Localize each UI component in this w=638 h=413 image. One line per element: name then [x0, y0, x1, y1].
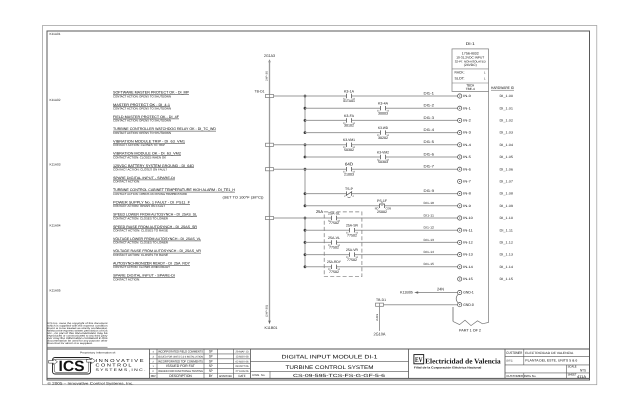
- svg-text:ISSUED FOR UNITS 5 & 6 INSTALL: ISSUED FOR UNITS 5 & 6 INSTALLATION: [158, 355, 203, 358]
- svg-text:TB-D1: TB-D1: [255, 89, 265, 93]
- svg-text:02 NOV 06: 02 NOV 06: [236, 360, 250, 363]
- svg-text:21003: 21003: [344, 172, 354, 176]
- svg-text:1: 1: [484, 78, 486, 81]
- junction dot row 14: [304, 253, 307, 256]
- module input terminal IN-3: [458, 131, 462, 135]
- svg-text:Electricidad de Valencia: Electricidad de Valencia: [425, 357, 501, 366]
- svg-text:(24VDC): (24VDC): [464, 63, 477, 67]
- description row 12: [113, 225, 197, 233]
- svg-text:EV: EV: [415, 356, 423, 364]
- svg-text:27 AUG 06: 27 AUG 06: [236, 370, 250, 373]
- svg-text:K11B05: K11B05: [400, 291, 413, 295]
- svg-text:50303: 50303: [378, 160, 388, 164]
- svg-text:SP: SP: [209, 350, 214, 354]
- svg-text:DI1-11: DI1-11: [424, 213, 435, 217]
- wire 24P-35 bus vertical: [269, 61, 271, 321]
- svg-text:DI_1.12: DI_1.12: [500, 241, 514, 245]
- svg-text:INCORPORATED FIELD COMMENTS: INCORPORATED FIELD COMMENTS: [158, 350, 203, 354]
- module input terminal IN-6: [458, 167, 462, 171]
- revision history table: [149, 349, 250, 378]
- description row 14: [113, 249, 201, 257]
- wire row 15 left segment (net DI1-15): [305, 266, 331, 268]
- wire row 7 left segment (net DI1-7): [274, 168, 347, 170]
- branch wire vertical x=305 rows 11-15: [304, 218, 306, 267]
- svg-text:SLOT:: SLOT:: [455, 77, 465, 81]
- module bottom left edge: [452, 307, 454, 321]
- svg-text:IN-14: IN-14: [463, 265, 473, 269]
- wire row 14 left segment (net DI1-14): [305, 254, 349, 256]
- svg-text:DI1-12: DI1-12: [424, 226, 435, 230]
- svg-text:77502: 77502: [347, 258, 357, 262]
- jumper arc between GND-1 and GND-0: [456, 294, 458, 303]
- contact 25A-SL: [328, 211, 341, 225]
- junction dot row 9: [304, 192, 307, 195]
- description row 3: [113, 115, 179, 123]
- svg-text:CONTACT ACTION: OPENS ON RISIN: CONTACT ACTION: OPENS ON RISING TEMPERAT…: [113, 192, 187, 196]
- svg-text:CONTACT ACTION: OPENS TO SHUTD: CONTACT ACTION: OPENS TO SHUTDOWN: [113, 131, 171, 135]
- description row 4: [113, 127, 216, 135]
- svg-text:CONTACT ACTION: OPENS TO SHUTD: CONTACT ACTION: OPENS TO SHUTDOWN: [113, 94, 171, 98]
- wire row 3 right segment (net DI1-3): [352, 119, 458, 121]
- svg-text:APPROVED: APPROVED: [219, 374, 232, 378]
- ICS company name: [96, 358, 146, 372]
- svg-text:IN-13: IN-13: [463, 253, 473, 257]
- junction dot row 4: [304, 131, 307, 134]
- description row 5: [113, 139, 185, 147]
- description row 1: [113, 91, 190, 99]
- title block frame: [47, 349, 590, 378]
- svg-text:77502: 77502: [329, 270, 339, 274]
- svg-text:CUSTOMER: CUSTOMER: [506, 351, 522, 355]
- junction dot row 5: [304, 143, 307, 146]
- svg-text:IN-10: IN-10: [463, 216, 473, 220]
- svg-text:DI_1.14: DI_1.14: [500, 265, 514, 269]
- svg-text:K11A03: K11A03: [50, 163, 61, 167]
- module input terminal IN-8: [458, 192, 462, 196]
- svg-text:ISSUED FOR FUNCTIONAL TESTING: ISSUED FOR FUNCTIONAL TESTING: [158, 370, 203, 373]
- module ground terminal GND-1: [458, 290, 462, 294]
- contact TS-P: [344, 187, 354, 198]
- svg-text:DI_1.11: DI_1.11: [500, 228, 514, 232]
- svg-text:0: 0: [153, 370, 155, 373]
- wire 24N to GND-1: [418, 292, 458, 294]
- svg-text:41TA01: 41TA01: [343, 99, 355, 103]
- contact 25A-VR: [346, 248, 359, 262]
- svg-text:PART 1 OF 2: PART 1 OF 2: [459, 329, 481, 333]
- contact 64D: [343, 162, 356, 177]
- wire row 7 right segment (net DI1-7): [352, 168, 458, 170]
- svg-text:29 MAY 13: 29 MAY 13: [236, 351, 250, 354]
- bus down-arrow to K11B01: [268, 321, 271, 325]
- svg-text:DESCRIPTION: DESCRIPTION: [169, 374, 192, 378]
- device boundary 25A (autosynchronizer) dashed box: [324, 212, 362, 277]
- wire row 11 left segment (net DI1-11): [274, 217, 332, 219]
- svg-text:HARDWARE ID: HARDWARE ID: [491, 86, 514, 90]
- contact 25A-VL: [328, 236, 341, 250]
- svg-text:3: 3: [153, 355, 155, 358]
- svg-text:SP: SP: [209, 364, 214, 368]
- module DI-1 header box: [452, 49, 489, 92]
- proprietary notice paragraph: [48, 322, 109, 347]
- description row 6: [113, 152, 181, 160]
- svg-text:SHEET: SHEET: [568, 372, 577, 376]
- svg-text:ISSUED FOR FAT: ISSUED FOR FAT: [166, 364, 196, 368]
- svg-text:13 NOV 08: 13 NOV 08: [236, 355, 250, 358]
- svg-text:1: 1: [484, 72, 486, 75]
- svg-text:2G10A: 2G10A: [374, 331, 386, 336]
- svg-text:77502: 77502: [329, 221, 339, 225]
- svg-text:25A: 25A: [316, 209, 323, 214]
- svg-text:SP: SP: [209, 359, 214, 363]
- svg-text:24P-35: 24P-35: [266, 70, 269, 81]
- svg-text:24N: 24N: [376, 314, 379, 321]
- svg-text:GND-1: GND-1: [463, 291, 474, 295]
- module input terminal IN-15: [458, 277, 462, 281]
- svg-text:K3-1A: K3-1A: [344, 89, 355, 93]
- module header divider 1: [452, 68, 489, 70]
- junction dot row 11: [304, 217, 307, 220]
- svg-text:PLANTA DEL ESTE, UNITS 5 & 6: PLANTA DEL ESTE, UNITS 5 & 6: [525, 359, 577, 363]
- svg-text:25A-VL: 25A-VL: [328, 236, 340, 240]
- contact K3-VM1: [343, 138, 356, 152]
- wire row 14 right segment (net DI1-14): [355, 254, 458, 256]
- branch wire vertical x=305 rows 5-6: [304, 145, 306, 157]
- svg-text:DI1-4: DI1-4: [424, 128, 435, 132]
- terminal TB-D1 row 7: [266, 168, 274, 171]
- svg-text:30202: 30202: [378, 136, 388, 140]
- svg-text:4: 4: [153, 351, 155, 354]
- svg-text:2G1A3: 2G1A3: [264, 54, 275, 58]
- description row 15: [113, 261, 191, 269]
- branch wire vertical x=305 rows 1-4: [304, 96, 306, 133]
- svg-text:K3-VM1: K3-VM1: [343, 138, 355, 142]
- svg-text:25A-VR: 25A-VR: [346, 248, 359, 252]
- module input terminal IN-2: [458, 118, 462, 122]
- module input terminal IN-10: [458, 216, 462, 220]
- wire row 10 right segment (net DI1-10): [385, 205, 458, 207]
- svg-text:DI1-7: DI1-7: [424, 165, 435, 169]
- svg-text:IN-2: IN-2: [463, 119, 471, 123]
- svg-text:IN-4: IN-4: [463, 143, 471, 147]
- svg-text:RACK:: RACK:: [455, 71, 465, 75]
- wire row 1 right segment (net DI1-1): [352, 95, 458, 97]
- sheet inner border: [47, 31, 590, 380]
- svg-text:than that for which it is supp: than that for which it is supplied.: [48, 342, 93, 345]
- description row 16: [113, 274, 175, 282]
- description row 11: [113, 213, 197, 221]
- svg-text:© 2005 – Innovative Control: © 2005 – Innovative Control Systems, Inc…: [48, 381, 134, 385]
- svg-text:DI1-1: DI1-1: [424, 91, 435, 95]
- module input terminal IN-12: [458, 240, 462, 244]
- svg-text:(24P-35): (24P-35): [266, 305, 269, 317]
- svg-text:IN-6: IN-6: [463, 167, 471, 171]
- wire row 4 left segment (net DI1-4): [305, 132, 380, 134]
- EdV customer logo: [414, 355, 501, 370]
- svg-text:CONTACT ACTION: CLOSES TO TRIP: CONTACT ACTION: CLOSES TO TRIP: [113, 143, 165, 147]
- contact K3-1A: [343, 89, 356, 103]
- wire row 11 right segment (net DI1-11): [337, 217, 458, 219]
- svg-text:25002: 25002: [377, 210, 387, 214]
- terminal TB-D1 row 1: [266, 94, 274, 97]
- svg-text:K11A01: K11A01: [50, 32, 61, 36]
- svg-text:DI1-6: DI1-6: [424, 152, 435, 156]
- svg-text:K11A05: K11A05: [50, 289, 61, 293]
- customer info table: [505, 349, 590, 379]
- module jagged break line: [453, 320, 489, 325]
- svg-text:IN-9: IN-9: [463, 204, 471, 208]
- svg-text:DI_1.09: DI_1.09: [500, 204, 514, 208]
- module input terminal IN-11: [458, 228, 462, 232]
- svg-text:K11A04: K11A04: [50, 223, 61, 227]
- contact K3-4A: [377, 102, 390, 116]
- svg-text:DI1-9: DI1-9: [424, 189, 435, 193]
- svg-text:PS-1F: PS-1F: [377, 199, 387, 203]
- module input terminal IN-0: [458, 94, 462, 98]
- svg-text:TB-D1: TB-D1: [376, 298, 386, 302]
- svg-text:TS-P: TS-P: [345, 187, 354, 191]
- wire row 5 right segment (net DI1-5): [352, 144, 458, 146]
- svg-text:CONTACT ACTION: CLOSES WHEN OK: CONTACT ACTION: CLOSES WHEN OK: [113, 155, 166, 159]
- svg-text:DI_1.15: DI_1.15: [500, 277, 514, 281]
- wire row 13 right segment (net DI1-13): [337, 241, 458, 243]
- wire GND-0 to TB-D1: [384, 304, 458, 306]
- junction dot row 7: [304, 168, 307, 171]
- junction dot row 1: [304, 95, 307, 98]
- wire row 12 right segment (net DI1-12): [355, 229, 458, 231]
- svg-text:IN-5: IN-5: [463, 155, 471, 159]
- svg-text:K3-4A: K3-4A: [378, 102, 389, 106]
- svg-text:DI_1.04: DI_1.04: [500, 143, 514, 147]
- svg-text:64D: 64D: [345, 162, 353, 167]
- svg-text:INCORPORATED TDF COMMENTS: INCORPORATED TDF COMMENTS: [158, 359, 203, 363]
- contact K3-WD: [377, 126, 390, 140]
- wire row 6 left segment (net DI1-6): [305, 156, 380, 158]
- svg-text:25A-RDY: 25A-RDY: [327, 260, 342, 264]
- svg-text:CONTACT ACTION:: CONTACT ACTION:: [113, 180, 140, 184]
- svg-text:DI1-5: DI1-5: [424, 140, 435, 144]
- svg-text:CONTACT ACTION: OPENS TO SHUTD: CONTACT ACTION: OPENS TO SHUTDOWN: [113, 107, 171, 111]
- module input terminal IN-4: [458, 143, 462, 147]
- wire 24N vertical to 2G10A: [379, 306, 381, 331]
- module right edge: [488, 91, 490, 322]
- svg-text:DATE: DATE: [239, 374, 246, 378]
- svg-text:TURBINE CONTROL SYSTEM: TURBINE CONTROL SYSTEM: [286, 365, 374, 371]
- wire row 5 left segment (net DI1-5): [274, 144, 347, 146]
- svg-text:77502: 77502: [329, 246, 339, 250]
- module input terminal IN-9: [458, 204, 462, 208]
- svg-text:30003: 30003: [378, 111, 388, 115]
- svg-text:CS-09-595-TCS-FS-G-GF-5-6: CS-09-595-TCS-FS-G-GF-5-6: [293, 373, 386, 378]
- svg-text:DI1-13: DI1-13: [424, 238, 435, 242]
- description row 10: [113, 200, 190, 208]
- svg-text:IN-1: IN-1: [463, 106, 471, 110]
- wire row 9 left segment (net DI1-9): [305, 193, 346, 195]
- module header divider 2: [452, 82, 489, 84]
- svg-text:SITE:: SITE:: [506, 360, 513, 363]
- svg-text:K11A02: K11A02: [50, 98, 61, 102]
- svg-text:K3-FA: K3-FA: [344, 114, 355, 118]
- svg-text:C O N T R O L: C O N T R O L: [96, 362, 133, 367]
- svg-text:DI_1.00: DI_1.00: [500, 94, 514, 98]
- terminal TB-D1 row 11: [266, 216, 274, 219]
- svg-text:DI_1.10: DI_1.10: [500, 216, 514, 220]
- junction dot row 12: [304, 229, 307, 232]
- svg-text:DI_1.06: DI_1.06: [500, 167, 514, 171]
- wire row 10 left segment (net DI1-10): [305, 205, 379, 207]
- svg-text:IN-12: IN-12: [463, 241, 473, 245]
- svg-text:DI_1.01: DI_1.01: [500, 106, 514, 110]
- svg-text:IN-7: IN-7: [463, 180, 471, 184]
- svg-text:CONTACT ACTION: OPENS ON FAULT: CONTACT ACTION: OPENS ON FAULT: [113, 204, 165, 208]
- svg-text:K11B01: K11B01: [265, 326, 278, 330]
- svg-text:4: 4: [352, 195, 354, 198]
- svg-text:(SET TO 100°F (38°C)): (SET TO 100°F (38°C)): [223, 196, 264, 200]
- svg-text:50302: 50302: [344, 148, 354, 152]
- module input terminal IN-14: [458, 265, 462, 269]
- svg-text:CONTACT ACTION: OPENS TO SHUTD: CONTACT ACTION: OPENS TO SHUTDOWN: [113, 119, 171, 123]
- svg-text:IN-15: IN-15: [463, 277, 473, 281]
- svg-text:08 OCT 06: 08 OCT 06: [236, 365, 250, 368]
- contact 25A-RDY: [327, 260, 342, 274]
- svg-text:DI_1.13: DI_1.13: [500, 253, 514, 257]
- svg-text:IN-0: IN-0: [463, 94, 471, 98]
- svg-text:77502: 77502: [347, 233, 357, 237]
- module ground terminal GND-0: [458, 303, 462, 307]
- description row 8: [113, 176, 175, 184]
- svg-text:CONTACT ACTION: CLOSES TO RAIS: CONTACT ACTION: CLOSES TO RAISE: [113, 253, 168, 257]
- junction dot row 15: [304, 265, 307, 268]
- wire row 1 left segment (net DI1-1): [274, 95, 347, 97]
- contact K3-VM2: [377, 150, 390, 164]
- module input terminal IN-1: [458, 106, 462, 110]
- svg-text:25A-SR: 25A-SR: [346, 224, 359, 228]
- junction dot row 6: [304, 156, 307, 159]
- wire row 3 left segment (net DI1-3): [305, 119, 346, 121]
- svg-text:DI_1.05: DI_1.05: [500, 155, 514, 159]
- contact PS-1F: [375, 199, 392, 214]
- svg-text:DWG. No.: DWG. No.: [252, 373, 265, 377]
- svg-text:CONTACT ACTION: CLOSES WHEN RE: CONTACT ACTION: CLOSES WHEN READY: [113, 265, 170, 269]
- wire row 4 right segment (net DI1-4): [386, 132, 458, 134]
- junction dot row 3: [304, 119, 307, 122]
- terminal TB-D1 row 5: [266, 143, 274, 146]
- svg-text:GND-0: GND-0: [463, 303, 474, 307]
- drawing title: [250, 355, 408, 372]
- module input terminal IN-7: [458, 179, 462, 183]
- svg-text:SP: SP: [209, 354, 214, 358]
- svg-text:24N: 24N: [437, 287, 444, 292]
- svg-text:CONTACT ACTION: CLOSES TO RAIS: CONTACT ACTION: CLOSES TO RAISE: [113, 229, 168, 233]
- svg-text:CONTACT ACTION: CLOSES ON FAUL: CONTACT ACTION: CLOSES ON FAULT: [113, 168, 167, 172]
- svg-text:DI1-3: DI1-3: [424, 116, 435, 120]
- svg-text:ELECTRICIDAD DE VALENCIA: ELECTRICIDAD DE VALENCIA: [525, 351, 574, 355]
- svg-text:S Y S T E M S , I N C .: S Y S T E M S , I N C .: [96, 368, 146, 372]
- wire row 15 right segment (net DI1-15): [337, 266, 458, 268]
- wire row 2 left segment (net DI1-2): [305, 107, 380, 109]
- svg-text:CONTACT ACTION: CLOSES TO LOWE: CONTACT ACTION: CLOSES TO LOWER: [113, 241, 169, 245]
- sheet outer border: [43, 26, 597, 385]
- svg-text:K3-WD: K3-WD: [378, 126, 388, 130]
- svg-text:DI1-10: DI1-10: [424, 201, 435, 205]
- svg-text:DI-1: DI-1: [466, 41, 475, 46]
- arrow to K11B05: [414, 291, 418, 294]
- svg-text:CONTACT ACTION: CLOSES TO LOWE: CONTACT ACTION: CLOSES TO LOWER: [113, 216, 169, 220]
- svg-text:411A: 411A: [577, 374, 586, 379]
- wire row 13 left segment (net DI1-13): [305, 241, 331, 243]
- description row 13: [113, 237, 201, 245]
- svg-text:30102: 30102: [344, 124, 354, 128]
- svg-text:BY: BY: [209, 374, 214, 378]
- wire row 9 right segment (net DI1-9): [352, 193, 458, 195]
- junction dot row 10: [304, 204, 307, 207]
- svg-text:DI1-14: DI1-14: [424, 250, 435, 254]
- svg-text:DI_1.08: DI_1.08: [500, 192, 514, 196]
- svg-text:NTS: NTS: [580, 369, 587, 373]
- svg-text:SCALE: SCALE: [568, 365, 577, 369]
- contact K3-FA: [343, 114, 356, 128]
- svg-text:IN-3: IN-3: [463, 131, 471, 135]
- description row 2: [113, 103, 171, 111]
- module input terminal IN-13: [458, 253, 462, 257]
- svg-text:DI_1.07: DI_1.07: [500, 180, 514, 184]
- drawing number: [252, 371, 385, 378]
- description row 9: [113, 188, 264, 199]
- svg-text:Filial de la Corporación Eléct: Filial de la Corporación Eléctrica Nacio…: [414, 366, 482, 370]
- module input terminal IN-5: [458, 155, 462, 159]
- svg-text:REV: REV: [151, 374, 156, 378]
- svg-text:DI_1.03: DI_1.03: [500, 131, 514, 135]
- svg-text:CUSTOMER DWG No.: CUSTOMER DWG No.: [506, 374, 536, 378]
- svg-text:K3-VM2: K3-VM2: [377, 150, 389, 154]
- svg-text:2: 2: [153, 360, 155, 363]
- branch wire vertical x=305 rows 7-10: [304, 169, 306, 206]
- ICS logo: [49, 358, 96, 376]
- contact 25A-SR: [346, 224, 359, 238]
- svg-text:DI_1.02: DI_1.02: [500, 119, 514, 123]
- description row 7: [113, 164, 194, 172]
- wire row 12 left segment (net DI1-12): [305, 229, 349, 231]
- wire row 6 right segment (net DI1-6): [386, 156, 458, 158]
- svg-text:DI1-15: DI1-15: [424, 262, 435, 266]
- svg-text:1: 1: [153, 365, 155, 368]
- svg-text:IN-11: IN-11: [463, 228, 473, 232]
- svg-text:ICS: ICS: [59, 359, 85, 375]
- bus up-arrow: [268, 59, 270, 62]
- svg-text:IN-8: IN-8: [463, 192, 471, 196]
- svg-text:TBE-4: TBE-4: [466, 87, 475, 91]
- svg-text:Proprietary Information of:: Proprietary Information of:: [80, 351, 116, 354]
- svg-text:CONTACT ACTION:: CONTACT ACTION:: [113, 277, 140, 281]
- svg-text:DIGITAL INPUT MODULE DI-1: DIGITAL INPUT MODULE DI-1: [282, 355, 378, 361]
- junction dot row 13: [304, 241, 307, 244]
- svg-text:DI1-2: DI1-2: [424, 104, 435, 108]
- svg-text:SP: SP: [209, 369, 214, 373]
- junction dot row 2: [304, 107, 307, 110]
- wire row 2 right segment (net DI1-2): [386, 107, 458, 109]
